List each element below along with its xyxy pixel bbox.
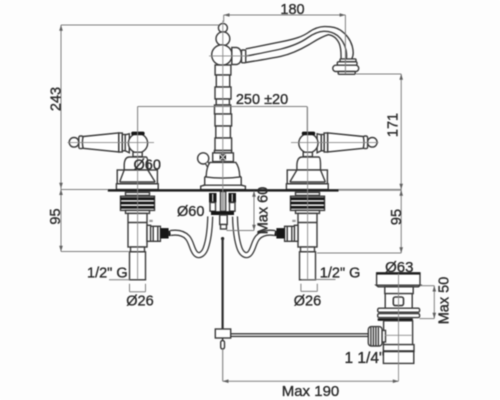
drain body [385, 294, 412, 309]
centerline left valve [137, 107, 139, 280]
left bell profile lines [120, 170, 156, 182]
spout outlet lip [338, 72, 355, 75]
left handle ball [128, 134, 147, 153]
drain plate 2 [378, 314, 420, 318]
spout column finial small ball [218, 23, 227, 32]
drain tailpipe [383, 352, 413, 364]
right bell profile lines [290, 170, 326, 182]
svg-text:Max 190: Max 190 [282, 383, 340, 400]
drain plate 1 [378, 308, 420, 312]
leader 1/2 G right [302, 279, 336, 281]
right valve body [298, 213, 317, 247]
center stud right [230, 203, 236, 212]
right handle flare [317, 134, 321, 153]
center stud nut left [209, 193, 217, 203]
spout tube top edge [246, 27, 353, 59]
column section 7 [216, 126, 231, 138]
right handle neck [305, 152, 313, 158]
right hose [235, 217, 275, 256]
column section 2 [216, 75, 229, 87]
drain horizontal centerline [385, 334, 412, 336]
svg-text:171: 171 [385, 113, 401, 137]
svg-text:1 1/4": 1 1/4" [345, 350, 385, 367]
right handle ring 1 [324, 133, 328, 152]
dim 180 [224, 14, 346, 16]
left valve washer 1 [126, 192, 150, 195]
left handle ring 2 [122, 135, 125, 151]
left valve fitting plate [147, 225, 151, 241]
right valve fitting plate [294, 225, 298, 241]
left valve hose nut dark [160, 228, 168, 238]
tiny annotation right valve [292, 220, 295, 222]
left handle lever body [82, 133, 118, 152]
spout collar barrel [232, 48, 242, 65]
right valve washer stack [291, 196, 325, 210]
drain dark band [378, 318, 413, 320]
dim 95 left [61, 189, 108, 191]
left handle dark cap [131, 132, 144, 136]
spout outlet bulge [333, 65, 359, 71]
rod clamp [215, 329, 230, 338]
centerline spout ball [209, 55, 249, 57]
column section 1 [215, 65, 231, 75]
left valve body [128, 213, 147, 247]
drain flange [377, 273, 420, 285]
right bell base [287, 170, 327, 184]
right handle dark cap [302, 132, 315, 136]
dim O26 left bracket [129, 284, 131, 292]
collar medallion [220, 154, 226, 160]
dim 250 +-20 [138, 106, 308, 108]
drain body hole [393, 297, 403, 306]
left hose [171, 217, 211, 256]
pop-up knob stem [207, 163, 211, 170]
left valve fitting hex nut [151, 226, 161, 241]
drain knurled wheel [368, 327, 382, 346]
center washer bar dark [211, 211, 234, 215]
center shank nut [220, 215, 228, 225]
svg-text:Ø26: Ø26 [294, 293, 321, 309]
centerline left handle axis [68, 142, 155, 144]
left bell upper [124, 157, 148, 170]
left valve inlet pipe [130, 252, 146, 280]
svg-text:Ø26: Ø26 [126, 293, 153, 309]
left bell base [117, 170, 157, 184]
svg-text:180: 180 [280, 2, 304, 18]
left bell neck [133, 152, 142, 156]
center bell seam [205, 177, 242, 178]
dim Max 50 [420, 285, 434, 287]
svg-text:243: 243 [49, 87, 65, 111]
right handle tip collar [363, 136, 367, 149]
svg-text:Max 60: Max 60 [255, 187, 271, 235]
column section 6 [215, 114, 232, 126]
right handle lever body [328, 133, 364, 152]
dim O26 right bracket [300, 284, 302, 292]
right valve narrowing [301, 247, 315, 252]
right bell neck [303, 152, 312, 156]
svg-text:95: 95 [389, 209, 405, 225]
column section 4 [216, 99, 229, 105]
dim Max 60 [253, 191, 255, 231]
right valve hose nut dark [276, 228, 284, 238]
svg-text:Ø63: Ø63 [385, 259, 413, 276]
left valve washer 2 [126, 210, 150, 213]
svg-text:Ø60: Ø60 [177, 204, 204, 220]
leader 1/2 G left [109, 279, 130, 281]
right handle ring 2 [321, 135, 324, 151]
left valve narrowing [131, 247, 145, 252]
dim Max 190 [223, 380, 399, 382]
left bell flare [116, 184, 158, 190]
svg-text:95: 95 [48, 208, 64, 224]
spout column finial medium ball [216, 32, 230, 46]
spout body ball [212, 45, 232, 65]
column collar block [213, 153, 234, 162]
horizontal actuating rod [231, 334, 369, 337]
column section 3 [215, 87, 231, 99]
drain coupling nut [383, 345, 414, 352]
svg-text:Ø60: Ø60 [134, 157, 161, 173]
right handle ball [299, 134, 318, 153]
rod lower tip [222, 338, 224, 341]
left valve washer stack [121, 196, 155, 210]
center stud left [210, 203, 216, 212]
right bell upper [297, 157, 321, 170]
centerline spout column [222, 21, 224, 212]
center bell escutcheon [201, 162, 246, 189]
centerline right valve [307, 107, 309, 280]
svg-text:250 ±20: 250 ±20 [236, 92, 288, 108]
centerline right handle axis [291, 142, 379, 144]
spout outlet ring 1 [340, 59, 356, 62]
wheel collar [382, 330, 385, 342]
right valve washer 1 [296, 192, 320, 195]
deck line [108, 189, 339, 192]
spout tube bottom edge [246, 35, 341, 63]
left handle tip ball [69, 138, 79, 148]
left handle flare [125, 134, 129, 153]
right bell flare [286, 184, 328, 190]
centerline drain [398, 274, 400, 382]
center stud nut right [229, 193, 237, 203]
spout outlet ring 2 [337, 62, 357, 65]
spout collar ring [242, 50, 246, 63]
right valve washer 2 [296, 210, 320, 213]
left handle ring 1 [119, 133, 123, 152]
dim 171 [356, 73, 401, 75]
pop-up rod upper [221, 237, 224, 240]
left handle neck [134, 152, 142, 158]
drain neck [385, 287, 413, 294]
column section 5 bulge [215, 105, 231, 114]
right valve inlet pipe [300, 252, 316, 280]
svg-text:Max 50: Max 50 [437, 277, 453, 325]
dim 243 [61, 24, 219, 26]
dim 95 right [400, 190, 402, 254]
right handle tip ball [368, 138, 378, 148]
left handle tip collar [79, 136, 83, 149]
center shank tube [220, 192, 225, 212]
svg-text:1/2" G: 1/2" G [87, 266, 128, 282]
column section 8 [215, 138, 232, 151]
pop-up knob [198, 153, 209, 164]
svg-text:1/2" G: 1/2" G [320, 266, 361, 282]
spout tube middle line [246, 31, 347, 59]
rod tail centerline [222, 349, 224, 381]
drain lower body [384, 321, 413, 345]
column section 9 [214, 151, 231, 154]
tiny annotation left valve [149, 220, 152, 222]
right valve fitting hex nut [285, 226, 295, 241]
